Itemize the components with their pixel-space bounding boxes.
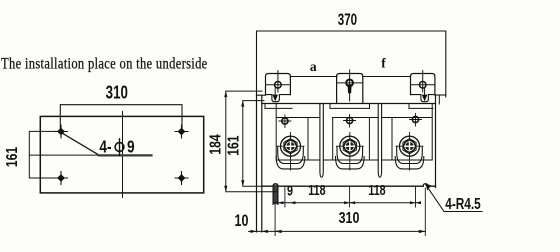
- svg-text:4-R4.5: 4-R4.5: [445, 194, 481, 212]
- mounting tab right: [411, 74, 435, 95]
- svg-text:9: 9: [287, 182, 293, 199]
- dim 10: [249, 230, 280, 232]
- pole floor line: [276, 159, 432, 161]
- svg-text:370: 370: [338, 11, 357, 30]
- step lines under tabs: [265, 107, 433, 109]
- left view mid horizontal line: [29, 154, 99, 156]
- svg-text:The installation place on the: The installation place on the underside: [1, 55, 208, 73]
- svg-text:118: 118: [308, 182, 325, 199]
- hole mark top-left: [55, 125, 68, 138]
- svg-text:10: 10: [235, 212, 249, 230]
- leader line for 4-phi9: [62, 133, 99, 155]
- body left edge (front): [261, 95, 263, 232]
- svg-text:184: 184: [207, 134, 225, 154]
- body top-right edge: [435, 94, 446, 96]
- pole step line: [276, 117, 432, 119]
- terminal pole2: [336, 133, 365, 171]
- dimension 370 bracket: [257, 31, 446, 97]
- leader 4-R4.5: [426, 185, 482, 212]
- svg-text:310: 310: [106, 82, 128, 103]
- hole mark bottom-left: [55, 172, 68, 185]
- svg-text:118: 118: [368, 182, 385, 199]
- dimension 161 left view: [29, 131, 61, 178]
- tab left centerline: [277, 71, 279, 92]
- bottom-right mounting slot: [423, 184, 428, 187]
- tab left hole crosshair: [266, 84, 291, 86]
- tab middle keyhole: [346, 80, 353, 87]
- rear plate top line: [290, 76, 410, 78]
- small hole pole3: [410, 114, 422, 127]
- svg-text:f: f: [381, 56, 386, 71]
- terminal pole1: [276, 133, 305, 171]
- ext line small hole 1: [284, 186, 286, 207]
- bottom-left mounting slot: [274, 185, 278, 205]
- tab left arrow: [274, 88, 276, 96]
- dim 161 right (rotated): [243, 101, 264, 187]
- tab left notch: [272, 95, 280, 102]
- svg-text:310: 310: [339, 210, 360, 228]
- tab right notch: [421, 95, 429, 102]
- svg-text:a: a: [310, 59, 317, 74]
- mounting tab left: [266, 74, 291, 95]
- hole mark top-right: [175, 125, 188, 138]
- arrows on 9/118/118 line: [278, 201, 421, 204]
- tab right hole: [419, 82, 426, 89]
- dim line 9/118/118: [273, 202, 420, 204]
- left view vertical centerline: [122, 112, 124, 198]
- small hole pole1: [279, 115, 291, 128]
- body left edge (rear): [256, 95, 258, 232]
- left view: mounting plate rectangle: [40, 116, 203, 192]
- body bottom edge: [262, 185, 436, 187]
- pole separator 2: [378, 104, 381, 177]
- svg-text:161: 161: [225, 135, 243, 155]
- tab left hole: [275, 82, 282, 89]
- tab middle crosshair: [337, 82, 363, 84]
- pole inner edges: [276, 104, 432, 161]
- tab right arrow: [424, 88, 426, 96]
- hole mark bottom-right: [175, 172, 188, 185]
- small hole pole2: [344, 115, 356, 128]
- body top-left edge: [257, 94, 266, 96]
- ext line small hole 3: [415, 186, 417, 207]
- ext line small hole 2: [349, 186, 351, 207]
- body right edge: [435, 95, 437, 187]
- tab middle centerline: [349, 70, 351, 101]
- svg-text:161: 161: [3, 147, 21, 167]
- pole separator 1: [320, 104, 323, 177]
- dim 310 bottom: [275, 188, 425, 236]
- svg-text:9: 9: [127, 138, 135, 157]
- dimension 310 bracket (left view): [60, 105, 182, 132]
- body right edge inner: [438, 95, 440, 104]
- tab right hole crosshair: [411, 84, 435, 86]
- terminal pole3: [395, 133, 424, 171]
- tab right centerline: [422, 71, 424, 92]
- body front top edge: [262, 103, 436, 105]
- svg-text:4-: 4-: [99, 138, 111, 157]
- dim 184: [226, 91, 277, 192]
- mounting tab middle: [337, 74, 363, 104]
